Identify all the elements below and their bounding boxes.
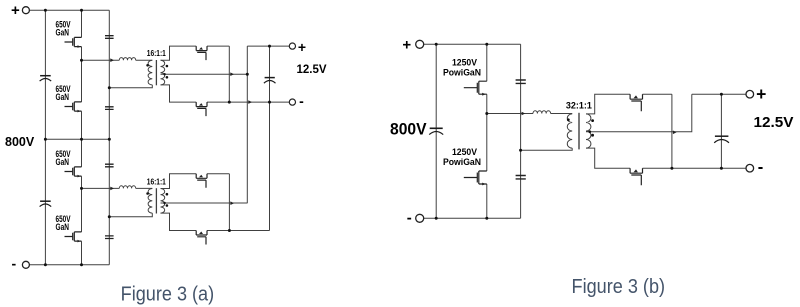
wire hop arrow: lower tap over divider rail (a) [110, 187, 114, 191]
phase dot T2 secondary bottom [166, 204, 169, 207]
transformer T2 primary winding [148, 189, 152, 214]
transistor Q4 650V GaN [65, 232, 82, 243]
transistor SR2 [196, 102, 207, 116]
inductor Lr (b) [533, 111, 551, 114]
wire: capacitor divider rail (a) [108, 10, 110, 265]
svg-text:-: - [407, 210, 412, 227]
transformer T3 core [578, 113, 580, 150]
wire: top SR wire right of SR5 [643, 93, 672, 95]
svg-text:GaN: GaN [56, 28, 70, 38]
capacitor Cout (b) [714, 136, 729, 143]
capacitor Cin 800V (b) [429, 128, 443, 134]
junction: bottom rail x FET rail (a) [80, 263, 83, 266]
transformer T3 primary winding [567, 114, 572, 148]
wire: T2 primary return [109, 213, 152, 217]
phase dot T1 primary [146, 64, 149, 67]
wire: T2 secondary top lead [161, 174, 197, 189]
wire: top input rail (a) [30, 9, 110, 11]
transistor SR4 [196, 231, 207, 245]
svg-text:Figure 3 (a): Figure 3 (a) [121, 283, 215, 305]
wire: FET chain rail segments (a) [81, 10, 83, 265]
wire: left input rail (a) [44, 10, 46, 265]
capacitor Cb3 on divider rail (a) [105, 164, 114, 167]
transistor SR1 [196, 46, 207, 60]
svg-text:-: - [11, 255, 16, 271]
wire: left input rail (b) [435, 44, 437, 218]
junction: plus wire x output cap rail (b) [720, 93, 723, 96]
capacitor Cout (a) [264, 78, 276, 84]
capacitor Cb2 on divider rail (a) [105, 107, 114, 110]
wire: FET rail segments (b) [486, 44, 488, 218]
svg-text:16:1:1: 16:1:1 [147, 177, 166, 186]
transformer T3 secondary winding [586, 114, 591, 148]
terminal - output (b) [746, 164, 754, 172]
wire: SR common rail (b) [671, 94, 673, 168]
junction: minus wire x SR rail upper (a) [228, 101, 231, 104]
capacitor Cs1 split cap top (b) [516, 80, 526, 83]
wire: split-cap rail (b) [520, 44, 522, 218]
wire hop arrow: mid line over split-cap rail (b) [522, 112, 526, 116]
junction: mid line x FET rail (a) [80, 138, 83, 141]
svg-text:GaN: GaN [56, 92, 70, 102]
svg-text:1250V: 1250V [452, 147, 478, 157]
labels (a) [5, 2, 327, 271]
labels (b) [390, 36, 794, 226]
phase dot T2 secondary top [166, 193, 169, 196]
phase dot T3 primary [567, 118, 570, 121]
wire: plus wire to terminal (b) [692, 93, 747, 95]
phase dot T2 primary [146, 192, 149, 195]
svg-text:GaN: GaN [56, 222, 70, 232]
svg-text:-: - [758, 159, 764, 177]
transistor SR6 [630, 168, 642, 185]
junction: upper tap node (a) [80, 59, 83, 62]
svg-text:800V: 800V [390, 119, 427, 138]
wire: top input rail (b) [424, 43, 521, 45]
wire hop arrow: upper tap over divider rail (a) [110, 58, 114, 62]
wire: SR common rail lower cell (a) [228, 174, 230, 231]
transistor Q6 1250V PowiGaN [464, 171, 487, 185]
transistor Q2 650V GaN [65, 102, 82, 113]
wire: output minus line (b) [643, 167, 747, 169]
junction: T2 center tap lead [163, 202, 165, 204]
junction: minus wire x SR rail (b) [670, 167, 673, 170]
transistor SR5 [630, 94, 642, 111]
junction: T1 center tap lead [163, 73, 165, 75]
svg-text:+: + [11, 2, 20, 19]
wire: T3 center tap to plus step [586, 94, 692, 132]
wire: T3 primary return [521, 148, 573, 150]
wire hop arrow: minus wire over plus rail (a) [248, 100, 252, 104]
terminal + input (a) [22, 7, 29, 14]
wire: T2 secondary bottom lead [161, 213, 197, 230]
junction: bottom rail x left rail (a) [44, 263, 47, 266]
wire: bottom input rail (a) [30, 264, 110, 266]
wire: T3 secondary top lead [586, 94, 630, 114]
capacitor Cb1 on divider rail (a) [105, 36, 114, 39]
wire: T2 top SR wire right of SR3 [207, 173, 229, 175]
wire: output plus rail2 (a) [246, 46, 248, 203]
transistor Q1 650V GaN [65, 37, 82, 48]
transformer T2 secondary winding [161, 189, 165, 214]
transformer T1 secondary winding [161, 60, 165, 85]
wire: T1 secondary bottom lead [161, 85, 197, 102]
terminal - input (a) [22, 261, 29, 268]
capacitor C2 input bottom (a) [40, 201, 52, 206]
phase dot T1 secondary bottom [166, 76, 169, 79]
svg-text:12.5V: 12.5V [297, 64, 327, 76]
svg-text:12.5V: 12.5V [754, 115, 794, 131]
wire hop arrow: center tap over SR rail (b) [673, 131, 677, 135]
capacitor Cb4 on divider rail (a) [105, 236, 114, 239]
junction: T3 center tap lead [589, 130, 592, 133]
wire: output minus line upper (a) [207, 101, 290, 103]
wire hop arrow: T1 center tap over SR rail (a) [230, 72, 234, 76]
transformer T1 core [155, 60, 157, 85]
wire: output plus wire to terminal (a) [247, 45, 289, 47]
inductor Lr2 [119, 186, 135, 189]
svg-text:+: + [756, 84, 766, 104]
capacitor Cs2 split cap bottom (b) [516, 176, 526, 179]
junction: mid line x divider rail (a) [108, 138, 111, 141]
junction: bottom rail x left rail (b) [435, 217, 438, 220]
wire: tap to lower transformer (a) [82, 187, 120, 189]
junction: minus wire x output cap rail (b) [720, 167, 723, 170]
wire: T3 secondary bottom lead [586, 148, 630, 168]
wire: SR common rail upper cell (a) [228, 46, 230, 102]
junction: plus wire x cap rail (a) [268, 45, 271, 48]
svg-text:16:1:1: 16:1:1 [147, 49, 166, 58]
terminal + output (a) [289, 43, 295, 49]
junction: top rail x FET rail (b) [485, 43, 488, 46]
svg-text:+: + [298, 39, 306, 55]
transistor SR3 [196, 174, 207, 188]
junction: lower bottom wire x SR rail (a) [228, 229, 231, 232]
terminal + output (b) [746, 90, 754, 98]
transformer T2 core [155, 188, 157, 213]
wire: inductor to transformer T1 [136, 59, 153, 61]
transistor Q3 650V GaN [65, 167, 82, 178]
svg-text:+: + [402, 36, 411, 53]
inductor Lr1 [119, 58, 135, 61]
phase dot T1 secondary top [166, 65, 169, 68]
junction: T2 return x divider rail (a) [108, 215, 111, 218]
wire: T1 center tap to rail2 [161, 73, 248, 75]
terminal + input (b) [416, 40, 424, 48]
wire: output cap rail3 (a) [269, 46, 271, 230]
wire: lower cell bottom wire (a) [207, 230, 270, 232]
junction: lower tap node (a) [80, 187, 83, 190]
svg-text:-: - [299, 93, 304, 109]
wire: T1 secondary top lead [161, 46, 197, 60]
svg-text:1250V: 1250V [452, 57, 478, 67]
wire: mid input line 400V node (a) [45, 138, 109, 140]
junction: half-bridge midpoint (b) [485, 112, 488, 115]
svg-text:PowiGaN: PowiGaN [443, 157, 481, 167]
terminal - input (b) [416, 214, 424, 222]
wire: tap to upper transformer (a) [82, 59, 120, 61]
svg-text:Figure 3 (b): Figure 3 (b) [572, 276, 666, 298]
junction: T3 return x split-cap rail (b) [519, 149, 522, 152]
wire: inductor to transformer T3 [551, 113, 573, 115]
phase dot T3 secondary top [591, 119, 594, 122]
svg-text:GaN: GaN [56, 157, 70, 167]
wire: T1 primary return [109, 85, 152, 88]
junction: T1 return x divider rail (a) [108, 86, 111, 89]
junction: mid line x left rail (a) [44, 138, 47, 141]
capacitor C1 input top (a) [40, 76, 52, 81]
junction: bottom rail x FET rail (b) [485, 217, 488, 220]
wire: T2 center tap to rail2 [161, 202, 248, 204]
svg-text:PowiGaN: PowiGaN [443, 67, 481, 77]
phase dot T3 secondary bottom [591, 134, 594, 137]
junction: top rail x FET rail (a) [80, 9, 83, 12]
junction: T1 center tap x plus rail (a) [246, 73, 249, 76]
wire hop arrow: T2 center tap over SR rail (a) [230, 201, 234, 205]
wire: bottom input rail (b) [424, 217, 521, 219]
svg-text:32:1:1: 32:1:1 [566, 101, 592, 111]
transistor Q5 1250V PowiGaN [464, 81, 487, 95]
junction: top rail x left rail (b) [435, 43, 438, 46]
wire: output cap rail (b) [720, 94, 722, 168]
transformer T1 primary winding [148, 60, 152, 85]
svg-text:800V: 800V [5, 135, 35, 149]
wire: T1 top SR wire right of SR1 [207, 45, 229, 47]
terminal - output (a) [289, 99, 295, 105]
junction: top rail x left rail (a) [44, 9, 47, 12]
wire: half-bridge mid line (b) [487, 113, 533, 115]
junction: minus wire x cap rail (a) [268, 101, 271, 104]
wire: inductor to transformer T2 [136, 187, 153, 189]
